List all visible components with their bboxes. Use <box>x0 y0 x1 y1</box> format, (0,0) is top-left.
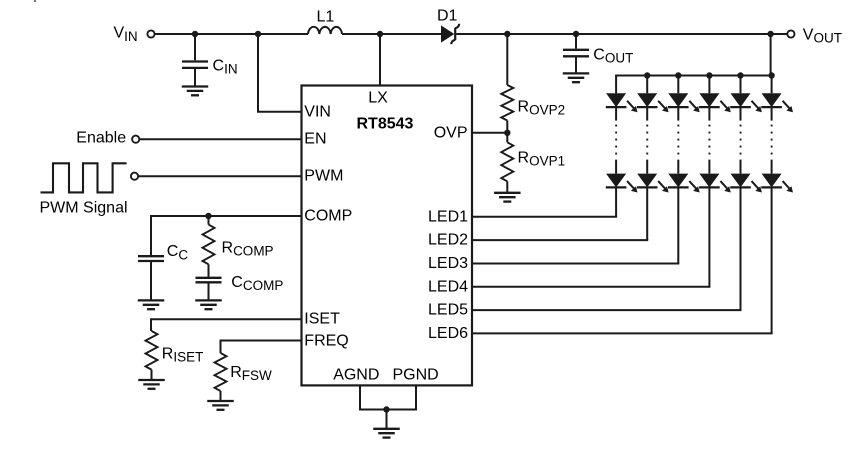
label ROVP2 <box>518 99 566 118</box>
junction dot LX drop <box>377 31 383 37</box>
wire LED column 1 from bus <box>615 76 617 94</box>
svg-text:CC: CC <box>167 243 189 262</box>
svg-text:COUT: COUT <box>593 46 633 65</box>
svg-text:VIN: VIN <box>114 25 138 44</box>
pin label LED4 <box>428 278 468 295</box>
resistor RISET <box>146 331 158 370</box>
svg-text:ISET: ISET <box>304 310 340 327</box>
wire Enable to pin EN <box>139 138 301 140</box>
wire LX drop to pin LX <box>379 34 381 86</box>
capacitor CIN <box>182 62 208 68</box>
ground CC <box>138 300 165 309</box>
ground ROVP1 <box>494 193 521 202</box>
label RISET <box>162 346 204 365</box>
junction dot VOUT drop <box>767 31 773 37</box>
wire LED column 2 cathode to pin LED2 <box>472 187 648 240</box>
label PWM Signal <box>40 199 128 216</box>
wire LED column 3 lower <box>677 160 679 174</box>
wire LED column 1 upper <box>615 107 617 121</box>
svg-text:LX: LX <box>368 90 388 107</box>
label ROVP1 <box>518 150 566 169</box>
junction dot OVP divider tap <box>504 31 510 37</box>
pin label LED5 <box>428 302 468 319</box>
wire ground tie stem <box>386 410 388 429</box>
capacitor CCOMP <box>196 278 222 283</box>
svg-text:RFSW: RFSW <box>230 364 272 383</box>
pin label ISET <box>304 310 340 327</box>
pin label LED6 <box>428 325 468 342</box>
wire LED column 2 from bus <box>646 76 648 94</box>
wire LED column 1 cathode to pin LED1 <box>472 187 617 216</box>
wire RCOMP stem <box>208 216 210 225</box>
wire top rail from D1 to VOUT terminal <box>456 33 787 35</box>
junction dot ground tie <box>383 406 389 412</box>
pin label LED1 <box>428 208 468 225</box>
svg-text:LED2: LED2 <box>428 232 468 249</box>
label VIN terminal <box>114 25 138 44</box>
label D1 <box>437 7 458 24</box>
wire VIN drop to pin VIN <box>257 34 302 112</box>
pin label LX <box>368 90 388 107</box>
wire LED column 6 from bus <box>771 76 773 94</box>
pin label LED2 <box>428 232 468 249</box>
wire LED column 2 upper <box>646 107 648 121</box>
svg-text:LED6: LED6 <box>428 325 468 342</box>
wire LED column 2 lower <box>646 160 648 174</box>
wire ROVP1 to ground <box>506 181 508 193</box>
svg-text:EN: EN <box>304 130 326 147</box>
wire CCOMP to ground <box>208 282 210 300</box>
wire LED column 5 lower <box>740 160 742 174</box>
junction dot RCOMP tap <box>205 213 211 219</box>
terminal Enable <box>132 136 139 143</box>
wire LED anode bus <box>615 75 772 77</box>
LED4 string top diode <box>699 93 731 112</box>
pin label AGND <box>333 366 379 383</box>
wire RISET to ground <box>151 370 153 380</box>
wire top rail from VIN terminal to inductor L1 <box>155 33 308 35</box>
label Enable <box>76 130 126 147</box>
pin label EN <box>304 130 326 147</box>
IC U1 RT8543 body <box>302 86 473 386</box>
resistor RCOMP <box>203 225 215 265</box>
svg-text:LED3: LED3 <box>428 255 468 272</box>
resistor ROVP2 <box>501 85 513 121</box>
wire LED column 2 dotted continuation <box>646 125 648 155</box>
wire LED column 4 lower <box>708 160 710 174</box>
LED5 string bottom diode <box>730 174 762 193</box>
pwm square wave signal <box>41 163 127 192</box>
pin label FREQ <box>304 332 348 349</box>
svg-text:PWM: PWM <box>304 168 343 185</box>
wire pin PGND down <box>415 385 417 409</box>
terminal VIN <box>147 30 154 37</box>
LED3 string top diode <box>668 93 700 112</box>
wire pin OVP to node OVP <box>472 132 507 134</box>
svg-text:CCOMP: CCOMP <box>231 274 283 293</box>
pin label COMP <box>304 208 352 225</box>
svg-text:VOUT: VOUT <box>803 27 842 46</box>
svg-text:OVP: OVP <box>434 124 468 141</box>
wire LED column 6 upper <box>771 107 773 121</box>
svg-text:LED5: LED5 <box>428 302 468 319</box>
wire CC stem <box>150 216 152 255</box>
pin label VIN <box>304 103 331 120</box>
wire LED column 3 from bus <box>677 76 679 94</box>
wire pin FREQ to RFSW <box>220 341 302 354</box>
pin label PWM <box>304 168 343 185</box>
LED6 string bottom diode <box>761 174 793 193</box>
wire pin ISET to RISET <box>150 319 302 331</box>
svg-text:COMP: COMP <box>304 208 352 225</box>
wire LED column 4 from bus <box>708 76 710 94</box>
wire COUT to ground <box>575 56 577 73</box>
ground CCOMP <box>195 300 222 309</box>
LED6 string top diode <box>761 93 793 112</box>
wire LED column 5 cathode to pin LED5 <box>472 187 742 310</box>
svg-text:Enable: Enable <box>76 130 126 147</box>
capacitor COUT <box>563 50 589 57</box>
pin label LED3 <box>428 255 468 272</box>
capacitor CC <box>138 256 164 261</box>
wire LED column 3 cathode to pin LED3 <box>472 187 679 263</box>
svg-text:CIN: CIN <box>213 57 238 76</box>
wire top rail from L1 to diode D1 <box>342 33 441 35</box>
junction dot LED bus column 4 <box>706 72 712 78</box>
wire LED column 4 dotted continuation <box>709 125 711 155</box>
wire LED column 4 upper <box>708 107 710 121</box>
pin label OVP <box>434 124 468 141</box>
ground RISET <box>138 380 165 389</box>
LED4 string bottom diode <box>699 174 731 193</box>
wire CIN to ground <box>194 68 196 87</box>
speck <box>34 0 36 2</box>
resistor RFSW <box>215 353 227 391</box>
svg-text:LED1: LED1 <box>428 208 468 225</box>
LED3 string bottom diode <box>668 174 700 193</box>
label VOUT terminal <box>803 27 842 46</box>
resistor ROVP1 <box>501 142 513 181</box>
wire LED column 1 dotted continuation <box>615 125 617 155</box>
diode D1 <box>441 24 459 44</box>
wire LED column 5 from bus <box>740 76 742 94</box>
svg-text:RT8543: RT8543 <box>357 116 414 133</box>
junction dot node OVP <box>504 130 510 136</box>
wire LED column 5 dotted continuation <box>740 125 742 155</box>
wire RFSW to ground <box>220 391 222 401</box>
label RCOMP <box>222 239 274 258</box>
wire LED column 1 lower <box>615 160 617 174</box>
wire CC to ground <box>150 261 152 300</box>
svg-text:ROVP2: ROVP2 <box>518 99 566 118</box>
svg-text:PGND: PGND <box>393 366 439 383</box>
wire pin AGND down <box>359 385 361 409</box>
LED2 string bottom diode <box>637 174 669 193</box>
svg-text:L1: L1 <box>317 8 335 25</box>
ground AGND PGND <box>373 429 400 438</box>
LED5 string top diode <box>730 93 762 112</box>
LED2 string top diode <box>637 93 669 112</box>
ground COUT <box>563 73 590 82</box>
junction dot LED bus column 3 <box>675 72 681 78</box>
junction dot VIN drop <box>255 31 261 37</box>
wire LED column 6 lower <box>771 160 773 174</box>
LED1 string top diode <box>606 93 638 112</box>
wire ROVP2 to node OVP <box>506 121 508 143</box>
svg-text:FREQ: FREQ <box>304 332 348 349</box>
ground CIN <box>182 87 209 96</box>
wire RCOMP to CCOMP <box>208 264 210 277</box>
wire LED column 6 dotted continuation <box>771 125 773 155</box>
svg-text:RCOMP: RCOMP <box>222 239 274 258</box>
terminal VOUT <box>787 30 794 37</box>
svg-text:LED4: LED4 <box>428 278 468 295</box>
junction dot COUT tap <box>573 31 579 37</box>
terminal PWM <box>131 173 138 180</box>
svg-text:PWM Signal: PWM Signal <box>40 199 128 216</box>
label RT8543 <box>357 116 414 133</box>
wire AGND to PGND <box>359 409 417 411</box>
inductor L1 <box>308 27 342 34</box>
wire PWM to pin PWM <box>138 175 301 177</box>
svg-text:AGND: AGND <box>333 366 379 383</box>
svg-text:RISET: RISET <box>162 346 204 365</box>
label CCOMP <box>231 274 283 293</box>
wire LED column 5 upper <box>740 107 742 121</box>
wire LED column 3 upper <box>677 107 679 121</box>
label CIN <box>213 57 238 76</box>
wire LED column 6 cathode to pin LED6 <box>472 187 773 333</box>
ground RFSW <box>207 401 234 410</box>
wire VOUT drop to LED bus <box>770 34 772 76</box>
junction dot LED bus column 2 <box>644 72 650 78</box>
label COUT <box>593 46 633 65</box>
junction dot LED bus column 5 <box>737 72 743 78</box>
wire COUT stem <box>575 34 577 49</box>
svg-text:D1: D1 <box>437 7 458 24</box>
wire CIN stem <box>194 34 196 60</box>
LED1 string bottom diode <box>606 174 638 193</box>
junction dot LED bus column 6 <box>768 72 774 78</box>
wire OVP drop <box>506 34 508 85</box>
wire LED column 4 cathode to pin LED4 <box>472 187 710 286</box>
svg-text:ROVP1: ROVP1 <box>518 150 566 169</box>
pin label PGND <box>393 366 439 383</box>
label RFSW <box>230 364 272 383</box>
wire LED column 3 dotted continuation <box>677 125 679 155</box>
svg-text:VIN: VIN <box>304 103 331 120</box>
junction dot CIN tap <box>192 31 198 37</box>
wire pin COMP to CC branch <box>150 215 302 217</box>
label L1 <box>317 8 335 25</box>
label CC <box>167 243 189 262</box>
